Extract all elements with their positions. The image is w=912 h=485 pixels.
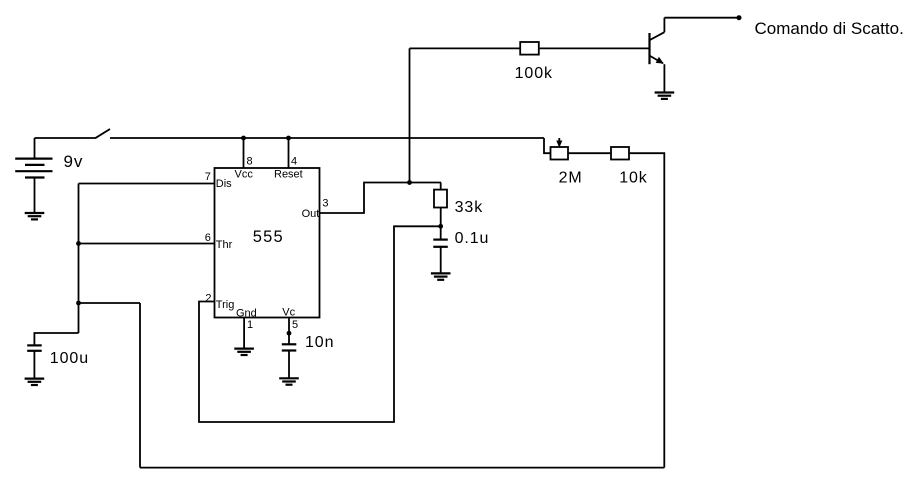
resistor 10k [611, 147, 629, 160]
wire pin 6 Thr [79, 243, 215, 245]
wire Vcc rail [110, 137, 544, 139]
svg-text:100u: 100u [50, 350, 89, 367]
svg-text:10k: 10k [619, 169, 648, 186]
junction node left branch [76, 301, 81, 306]
svg-text:Thr: Thr [216, 239, 233, 251]
svg-text:3: 3 [322, 197, 328, 209]
wire battery to switch [35, 137, 96, 139]
wire pin 5 Vc stub [288, 318, 290, 345]
wire 10k to right vertical [629, 153, 664, 467]
svg-text:0.1u: 0.1u [455, 230, 490, 247]
wire pin 7 Dis [79, 183, 215, 185]
switch (open) [95, 129, 110, 138]
svg-text:Gnd: Gnd [236, 307, 257, 319]
wire top to 100k [410, 47, 520, 49]
wire pot to 10k [568, 152, 611, 154]
ground (pin 1) [234, 349, 254, 355]
svg-text:9v: 9v [64, 152, 84, 171]
wire collector to terminal [664, 17, 739, 19]
svg-text:4: 4 [291, 156, 297, 168]
ground (100u) [25, 379, 45, 385]
svg-text:Reset: Reset [274, 169, 303, 181]
wire rail to potentiometer [544, 138, 551, 153]
op-amp/IC U1 555 body [215, 168, 320, 318]
wire pin 3 Out net [320, 183, 442, 214]
junction node pin4 rail [286, 136, 291, 141]
potentiometer 2M [551, 138, 569, 160]
transistor Q1 (NPN) [650, 18, 665, 92]
resistor 33k [434, 183, 447, 227]
wire pin 1 Gnd stub [243, 318, 245, 349]
wire branch to bottom net [79, 302, 141, 304]
svg-text:10n: 10n [305, 334, 334, 351]
svg-text:555: 555 [253, 228, 284, 246]
svg-text:33k: 33k [455, 199, 484, 216]
junction node pin8 rail [241, 136, 246, 141]
battery 9v [15, 138, 52, 213]
wire pin 2 Trig net [199, 226, 441, 422]
svg-text:Comando di Scatto.: Comando di Scatto. [755, 19, 904, 38]
junction node Out/100k/33k [407, 180, 412, 185]
svg-text:7: 7 [205, 171, 211, 183]
wire jog to 100u [34, 333, 78, 345]
capacitor 10n [282, 344, 297, 378]
wire 100k to base [540, 47, 650, 49]
junction node 33k/0.1u [438, 224, 443, 229]
svg-text:Vcc: Vcc [235, 169, 254, 181]
wire bottom rail [140, 467, 664, 469]
svg-text:Out: Out [302, 208, 320, 220]
junction node Thr/Dis [76, 241, 81, 246]
junction node Vc [287, 331, 292, 336]
wire vertical to 100k [409, 48, 411, 182]
wire pin 8 stub [243, 138, 245, 168]
svg-text:100k: 100k [515, 65, 553, 82]
svg-text:Trig: Trig [216, 299, 235, 311]
svg-text:2: 2 [205, 293, 211, 305]
svg-text:2M: 2M [559, 169, 583, 186]
svg-text:Dis: Dis [216, 178, 232, 190]
ground (emitter) [655, 93, 675, 99]
svg-text:Vc: Vc [282, 307, 295, 319]
svg-text:6: 6 [205, 232, 211, 244]
wire left vertical net [78, 184, 80, 334]
node terminal Comando [737, 15, 742, 20]
ground (10n) [279, 378, 299, 384]
wire vertical x140 [139, 303, 141, 468]
capacitor 100u [27, 345, 42, 378]
ground (battery) [25, 213, 45, 219]
capacitor 0.1u [433, 226, 448, 273]
wire pin 4 stub [288, 138, 290, 168]
svg-text:8: 8 [247, 156, 253, 168]
svg-text:5: 5 [292, 319, 298, 331]
svg-text:1: 1 [247, 319, 253, 331]
resistor 100k [520, 42, 539, 55]
ground (0.1u) [431, 273, 451, 279]
